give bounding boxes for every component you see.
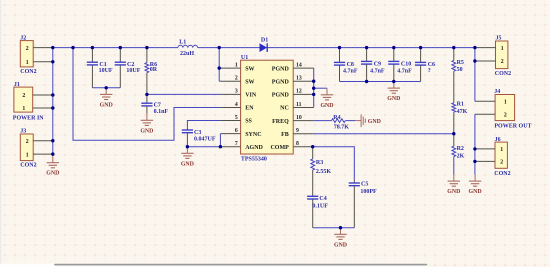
resistor R4 78.7K <box>332 115 350 131</box>
svg-text:PGND: PGND <box>272 66 290 72</box>
svg-text:C10: C10 <box>401 61 411 67</box>
svg-text:2: 2 <box>26 46 29 52</box>
capacitor C8 4.7nF <box>334 48 358 82</box>
svg-text:10UF: 10UF <box>99 68 113 74</box>
svg-text:FREQ: FREQ <box>272 119 289 125</box>
svg-text:4.7nF: 4.7nF <box>370 69 385 75</box>
wire AGND net (C3 bottom to pin 7) <box>187 146 220 148</box>
svg-text:1: 1 <box>500 147 503 153</box>
wire COMP net <box>313 147 355 180</box>
ground (J6 output return) <box>469 175 482 196</box>
ground (PGND) <box>326 87 328 89</box>
svg-text:?: ? <box>428 68 431 74</box>
svg-text:SYNC: SYNC <box>245 132 261 138</box>
svg-text:NC: NC <box>280 106 289 112</box>
capacitor C1 10UF <box>87 48 113 88</box>
svg-text:0.1nF: 0.1nF <box>154 109 169 115</box>
capacitor C9 4.7nF <box>361 48 385 82</box>
svg-text:10UF: 10UF <box>126 68 140 74</box>
svg-text:POWER OUT: POWER OUT <box>494 124 531 130</box>
junction dot VIN node <box>145 93 148 96</box>
svg-text:GND: GND <box>100 102 113 108</box>
svg-text:AGND: AGND <box>245 145 263 151</box>
inductor L1 22uH <box>178 40 198 58</box>
capacitor C4 0.1UF <box>307 196 328 228</box>
pin stubs U1 right <box>293 68 314 147</box>
capacitor C3 0.047UF <box>182 127 216 146</box>
svg-text:GND: GND <box>387 96 400 102</box>
capacitor C7 0.1nF <box>141 94 168 114</box>
wire output branch to J5 J4 <box>474 48 476 102</box>
svg-text:C2: C2 <box>127 62 134 68</box>
svg-text:14: 14 <box>296 62 302 68</box>
svg-text:1: 1 <box>22 106 25 112</box>
svg-text:7: 7 <box>235 141 238 147</box>
svg-text:TPS55340: TPS55340 <box>241 156 267 162</box>
svg-text:CON2: CON2 <box>495 71 511 77</box>
ground (J3) <box>46 154 59 177</box>
svg-text:1: 1 <box>26 152 29 158</box>
svg-text:5: 5 <box>235 115 238 121</box>
svg-text:GND: GND <box>320 103 333 109</box>
svg-text:8: 8 <box>296 141 299 147</box>
svg-text:R1: R1 <box>457 102 464 108</box>
ground (compensation network) <box>334 228 347 249</box>
svg-text:1: 1 <box>504 99 507 105</box>
svg-text:SW: SW <box>245 66 254 72</box>
wire compensation bottom rail <box>313 227 355 229</box>
svg-text:CON2: CON2 <box>20 163 36 169</box>
wire PGND rail pins 14-11 <box>313 68 315 107</box>
svg-text:100PF: 100PF <box>360 189 377 195</box>
wire SYNC drop to AGND net <box>219 134 221 147</box>
junction dots output caps bottom <box>365 80 396 83</box>
connector J1 POWER IN <box>13 82 53 122</box>
svg-text:COMP: COMP <box>270 145 289 151</box>
svg-text:47K: 47K <box>457 109 468 115</box>
connector J3 <box>20 129 53 169</box>
wire C1 C2 bottom rail <box>92 87 120 89</box>
capacitor C2 10UF <box>115 48 141 88</box>
junction dot input cap gnd <box>105 86 108 89</box>
svg-text:C5: C5 <box>361 181 368 187</box>
resistor R5 50 <box>452 60 464 73</box>
svg-text:78.7K: 78.7K <box>334 125 350 131</box>
svg-text:C8: C8 <box>347 62 354 68</box>
svg-text:R4: R4 <box>333 115 340 121</box>
svg-text:U1: U1 <box>241 55 248 61</box>
junction dot FB node <box>452 132 455 135</box>
capacitor C10 4.7nF <box>388 48 412 82</box>
svg-text:SW: SW <box>245 79 254 85</box>
capacitor C6 ? <box>415 48 435 82</box>
svg-text:R2: R2 <box>457 146 464 152</box>
svg-text:C7: C7 <box>154 103 161 109</box>
svg-text:FB: FB <box>281 132 289 138</box>
svg-text:1: 1 <box>235 62 238 68</box>
resistor R3 2.55K <box>312 147 314 197</box>
wire FREQ to R4 <box>314 120 332 122</box>
wire R4 to gnd <box>346 120 356 122</box>
svg-text:GND: GND <box>140 128 153 134</box>
pin stubs U1 left <box>221 68 241 147</box>
wire SW branch to pins 1,2 <box>219 48 220 82</box>
ground (C7) <box>140 114 153 135</box>
svg-text:GND: GND <box>334 242 347 248</box>
svg-text:2: 2 <box>26 139 29 145</box>
svg-text:C1: C1 <box>99 62 106 68</box>
bottom window edge <box>0 264 427 267</box>
wire SS net to C3 <box>187 121 220 128</box>
wire SW node rail (L1 to D1 anode) <box>198 47 260 49</box>
svg-text:0.047UF: 0.047UF <box>194 137 216 143</box>
wire FB net (pin 9 to divider) <box>314 133 454 135</box>
wire input top rail <box>53 47 178 49</box>
wire EN net <box>73 48 221 141</box>
svg-text:EN: EN <box>245 106 254 112</box>
svg-text:2: 2 <box>504 112 507 118</box>
connector J6 <box>475 137 511 177</box>
svg-text:D1: D1 <box>261 38 268 44</box>
junction dot SW pin1 <box>218 66 221 69</box>
ground (R2 divider) <box>447 175 460 196</box>
svg-text:C9: C9 <box>374 61 381 67</box>
svg-text:CON2: CON2 <box>494 171 510 177</box>
svg-text:11: 11 <box>296 102 302 108</box>
junction dots output branch <box>473 59 476 163</box>
svg-text:2: 2 <box>235 76 238 82</box>
svg-text:0R: 0R <box>150 67 158 73</box>
op-amp U1 TPS55340 <box>235 55 302 163</box>
svg-text:GND: GND <box>368 119 381 125</box>
connector J4 POWER OUT <box>475 89 532 130</box>
svg-text:PGND: PGND <box>272 79 290 85</box>
svg-text:C3: C3 <box>194 130 201 136</box>
svg-text:GND: GND <box>181 161 194 167</box>
svg-text:3: 3 <box>235 89 238 95</box>
svg-text:GND: GND <box>447 189 460 195</box>
svg-text:0.1UF: 0.1UF <box>312 204 328 210</box>
ground (FREQ R4, rotated) <box>355 114 381 127</box>
junction dot compensation gnd <box>339 226 342 229</box>
ground (output caps) <box>387 82 400 103</box>
svg-text:VIN: VIN <box>245 93 257 99</box>
ground (input caps C1 C2) <box>100 88 113 109</box>
svg-text:C4: C4 <box>319 196 326 202</box>
svg-text:PGND: PGND <box>272 93 290 99</box>
svg-text:SS: SS <box>245 119 252 125</box>
svg-text:12: 12 <box>296 89 302 95</box>
junction dots AGND net <box>186 145 222 148</box>
connector J2 <box>20 35 53 75</box>
svg-text:1: 1 <box>26 60 29 66</box>
wire R divider chain <box>453 48 455 175</box>
svg-text:R3: R3 <box>316 160 323 166</box>
wire VIN to pin 3 <box>147 93 221 95</box>
svg-text:2: 2 <box>501 59 504 65</box>
junction dots top rail <box>51 46 476 49</box>
svg-text:2: 2 <box>22 93 25 99</box>
svg-text:GND: GND <box>46 171 59 177</box>
svg-text:9: 9 <box>296 128 299 134</box>
svg-text:2: 2 <box>500 160 503 166</box>
junction dots left rail <box>51 60 54 156</box>
svg-text:POWER IN: POWER IN <box>13 115 45 121</box>
wire output caps bottom rail <box>340 81 421 83</box>
connector J5 <box>475 36 511 77</box>
resistor R6 0R <box>146 48 148 95</box>
svg-text:4.7nF: 4.7nF <box>397 69 412 75</box>
svg-text:10: 10 <box>296 115 302 121</box>
svg-text:4: 4 <box>235 102 238 108</box>
wire left connector rail <box>52 48 54 155</box>
wire PGND gnd branch <box>314 87 327 89</box>
svg-text:L1: L1 <box>179 40 186 46</box>
resistor R2 2K <box>452 146 465 159</box>
svg-text:CON2: CON2 <box>20 69 36 75</box>
svg-text:C6: C6 <box>428 62 435 68</box>
resistor R1 47K <box>452 102 468 115</box>
svg-text:4.7nF: 4.7nF <box>343 69 358 75</box>
svg-text:6: 6 <box>235 128 238 134</box>
svg-text:1: 1 <box>501 46 504 52</box>
wire output rail (D1 cathode to J5) <box>268 47 475 49</box>
wire J4 pin2 to J6 gnd rail <box>474 114 476 174</box>
diode D1 <box>260 38 269 52</box>
svg-text:R5: R5 <box>457 60 464 66</box>
svg-text:2K: 2K <box>457 153 465 159</box>
capacitor C5 100PF <box>349 180 377 228</box>
junction dots PGND rail <box>312 80 315 97</box>
svg-text:GND: GND <box>469 189 482 195</box>
ground (C3 AGND) <box>181 147 194 168</box>
svg-text:22uH: 22uH <box>180 51 194 57</box>
svg-text:2.55K: 2.55K <box>316 169 332 175</box>
svg-text:50: 50 <box>457 67 463 73</box>
svg-text:13: 13 <box>296 76 302 82</box>
junction dot COMP node <box>311 145 314 148</box>
